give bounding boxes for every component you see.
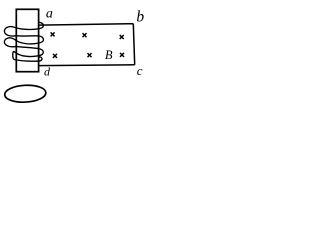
coil wire crossing 1 (front) xyxy=(14,27,39,29)
svg-text:B: B xyxy=(105,48,113,62)
wire bc (right edge of loop) xyxy=(133,24,134,65)
coil wire crossing 2 (front) xyxy=(16,35,39,37)
conducting ring xyxy=(4,84,46,103)
field cross 1 (top row) xyxy=(51,32,55,36)
coil wire crossing 4 (front) xyxy=(16,46,39,48)
coil turn 3 left curl xyxy=(12,51,15,59)
field cross 4 (bottom row) xyxy=(53,54,57,58)
field cross 6 (bottom row) xyxy=(120,53,124,57)
coil wire end crossing 6 xyxy=(14,57,42,61)
coil turn 3 right bump xyxy=(39,49,43,56)
coil turn 1 left curl xyxy=(4,27,16,36)
iron core bar xyxy=(16,9,38,71)
svg-text:d: d xyxy=(44,65,51,79)
coil turn 1 right bump xyxy=(39,22,44,29)
svg-text:a: a xyxy=(46,7,53,22)
field cross 3 (top row) xyxy=(120,35,124,39)
svg-text:b: b xyxy=(136,8,144,25)
coil wire crossing 5 (front) xyxy=(14,51,39,56)
coil turn 2 left curl xyxy=(4,38,16,47)
field cross 2 (top row) xyxy=(83,33,87,37)
coil wire crossing 3 (front) xyxy=(14,39,39,44)
coil turn 2 right bump xyxy=(39,36,44,43)
field cross 5 (bottom row) xyxy=(88,53,92,57)
svg-text:c: c xyxy=(137,63,143,78)
wire ab (top edge of loop) xyxy=(40,24,134,25)
wire cd (bottom edge of loop) xyxy=(40,64,135,67)
